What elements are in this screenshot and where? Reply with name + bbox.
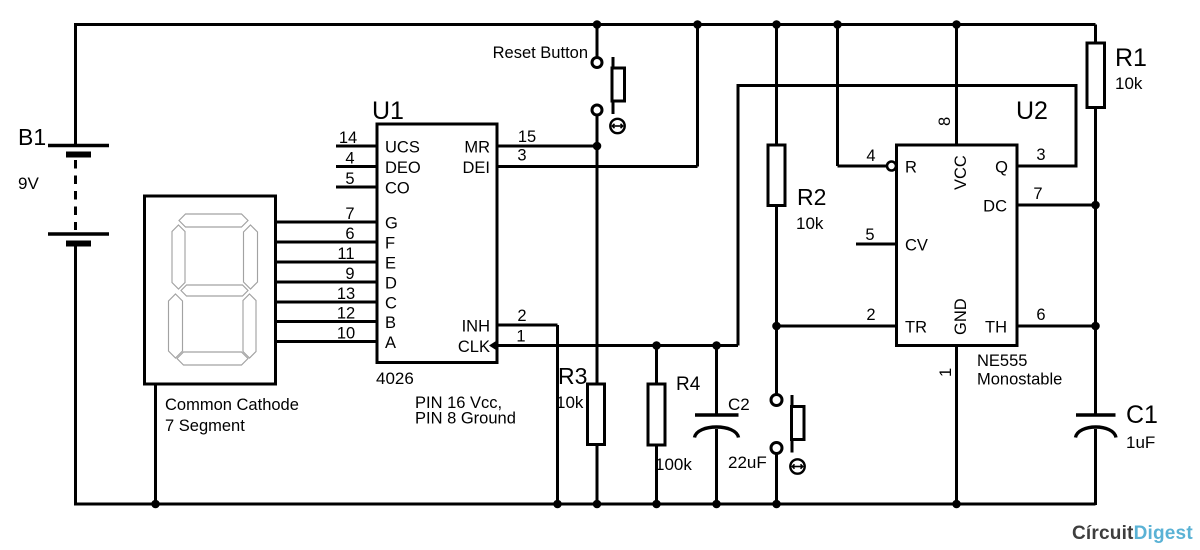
pin stub 5 CO bbox=[336, 186, 377, 189]
svg-text:1uF: 1uF bbox=[1126, 433, 1155, 452]
junction TH node bbox=[1091, 322, 1100, 331]
wire DEI pin 3 to supply bbox=[497, 25, 698, 167]
junction C2 ground bbox=[712, 500, 721, 509]
svg-text:D: D bbox=[385, 275, 397, 293]
junction DEI supply bbox=[693, 20, 702, 29]
svg-text:100k: 100k bbox=[655, 455, 692, 474]
svg-text:4: 4 bbox=[345, 150, 354, 168]
junction VCC supply bbox=[952, 20, 961, 29]
svg-text:DEI: DEI bbox=[462, 159, 490, 177]
svg-text:5: 5 bbox=[345, 170, 354, 188]
svg-text:15: 15 bbox=[518, 128, 536, 146]
reset button S1 bbox=[493, 25, 625, 147]
capacitor C2 22uF bbox=[695, 346, 767, 505]
svg-text:R2: R2 bbox=[797, 184, 826, 210]
svg-text:C: C bbox=[385, 295, 397, 313]
wire MR pin 15 bbox=[497, 128, 597, 146]
svg-text:R1: R1 bbox=[1115, 44, 1147, 72]
R pin inversion bubble bbox=[887, 162, 896, 171]
svg-text:CV: CV bbox=[905, 237, 928, 255]
svg-text:7: 7 bbox=[345, 205, 354, 223]
svg-text:Common Cathode: Common Cathode bbox=[165, 396, 299, 414]
svg-text:INH: INH bbox=[462, 318, 490, 336]
svg-text:4: 4 bbox=[866, 147, 875, 165]
pin stub 5 CV bbox=[856, 226, 897, 244]
svg-text:CLK: CLK bbox=[458, 338, 490, 356]
resistor R2 10k bbox=[768, 25, 826, 327]
wire segment C bbox=[276, 301, 378, 304]
reset button actuation symbol bbox=[610, 119, 624, 133]
svg-text:U1: U1 bbox=[372, 97, 404, 125]
wire TR pin 2 bbox=[777, 306, 897, 326]
wire INH pin 2 to ground bbox=[497, 307, 558, 504]
wire GND pin 1 to ground bbox=[937, 346, 957, 505]
svg-text:PIN 8 Ground: PIN 8 Ground bbox=[415, 410, 516, 428]
svg-text:6: 6 bbox=[345, 225, 354, 243]
U1 note text bbox=[415, 394, 516, 428]
svg-text:10k: 10k bbox=[1115, 74, 1143, 93]
svg-text:Reset Button: Reset Button bbox=[493, 44, 588, 62]
svg-text:F: F bbox=[385, 235, 395, 253]
svg-text:3: 3 bbox=[1036, 146, 1045, 164]
U1 pin labels left bbox=[385, 139, 421, 353]
resistor R4 100k bbox=[648, 346, 701, 505]
wire 7-segment common cathode to ground bbox=[154, 384, 157, 504]
svg-text:G: G bbox=[385, 215, 398, 233]
svg-text:7 Segment: 7 Segment bbox=[165, 417, 245, 435]
junction INH ground bbox=[553, 500, 562, 509]
svg-text:2: 2 bbox=[517, 307, 526, 325]
wire segment G bbox=[276, 221, 378, 224]
svg-text:7: 7 bbox=[1033, 185, 1042, 203]
svg-text:CírcuitDigest: CírcuitDigest bbox=[1072, 523, 1193, 544]
wire reset R pin 4 to supply bbox=[838, 25, 887, 167]
svg-text:9: 9 bbox=[345, 265, 354, 283]
trigger button actuation symbol bbox=[790, 459, 804, 473]
wire segment B bbox=[276, 320, 378, 323]
svg-text:11: 11 bbox=[337, 245, 354, 263]
svg-text:10k: 10k bbox=[796, 214, 824, 233]
resistor R1 10k bbox=[1087, 25, 1147, 416]
junction 7seg ground bbox=[151, 500, 160, 509]
junction C2 CLK bbox=[712, 341, 721, 350]
wire bottom ground rail bbox=[74, 503, 1096, 506]
svg-text:UCS: UCS bbox=[385, 139, 420, 157]
wire DC pin 7 bbox=[1017, 185, 1096, 205]
svg-text:TH: TH bbox=[985, 319, 1007, 337]
svg-text:3: 3 bbox=[517, 147, 526, 165]
wire Q feedback to CLK bbox=[738, 86, 1076, 346]
svg-text:R: R bbox=[905, 159, 917, 177]
CLK arrow head bbox=[489, 340, 498, 351]
svg-text:TR: TR bbox=[905, 319, 927, 337]
svg-text:1: 1 bbox=[516, 328, 525, 346]
svg-text:12: 12 bbox=[337, 305, 355, 323]
svg-text:A: A bbox=[385, 334, 396, 352]
svg-text:VCC: VCC bbox=[952, 155, 970, 190]
svg-text:B1: B1 bbox=[18, 124, 46, 150]
junction S2 ground bbox=[772, 500, 781, 509]
junction R3 ground bbox=[593, 500, 602, 509]
junction S1 supply bbox=[593, 20, 602, 29]
CircuitDigest logo bbox=[1072, 523, 1193, 544]
battery B1 bbox=[18, 23, 109, 505]
svg-text:C1: C1 bbox=[1126, 401, 1158, 429]
junction R2 supply bbox=[772, 20, 781, 29]
U2 pin labels bbox=[905, 155, 1008, 336]
capacitor C1 1uF bbox=[1076, 401, 1158, 505]
wire segment F bbox=[276, 241, 378, 244]
svg-text:9V: 9V bbox=[18, 174, 39, 193]
svg-text:8: 8 bbox=[936, 117, 954, 126]
svg-text:B: B bbox=[385, 314, 396, 332]
svg-text:E: E bbox=[385, 255, 396, 273]
svg-text:Q: Q bbox=[995, 159, 1008, 177]
pin stub 4 DEO bbox=[336, 165, 377, 168]
resistor R3 10k bbox=[556, 146, 605, 504]
svg-text:4026: 4026 bbox=[376, 369, 414, 388]
svg-text:NE555: NE555 bbox=[977, 352, 1027, 370]
svg-text:MR: MR bbox=[464, 139, 490, 157]
svg-text:5: 5 bbox=[865, 226, 874, 244]
svg-text:2: 2 bbox=[866, 306, 875, 324]
svg-text:C2: C2 bbox=[728, 395, 750, 414]
junction GND ground bbox=[952, 500, 961, 509]
junction R2 TR bbox=[772, 322, 781, 331]
svg-text:13: 13 bbox=[337, 285, 355, 303]
junction S1 / MR / R3 bbox=[593, 142, 602, 151]
U1 pin numbers left bbox=[337, 129, 357, 343]
U1 pin labels right bbox=[458, 139, 490, 357]
svg-text:Monostable: Monostable bbox=[977, 371, 1062, 389]
wire segment E bbox=[276, 261, 378, 264]
svg-text:1: 1 bbox=[937, 368, 955, 377]
svg-text:6: 6 bbox=[1036, 306, 1045, 324]
svg-text:10: 10 bbox=[337, 325, 355, 343]
svg-text:14: 14 bbox=[339, 129, 357, 147]
7-segment digit segments bbox=[169, 214, 258, 365]
wire top supply rail bbox=[74, 23, 1096, 26]
wire CLK pin 1 bbox=[497, 328, 738, 346]
trigger button S2 bbox=[771, 326, 804, 504]
IC U1 4026 box bbox=[372, 97, 497, 388]
pin stub 14 UCS bbox=[336, 145, 377, 148]
junction R4 ground bbox=[652, 500, 661, 509]
7-segment display DS1 box bbox=[145, 196, 299, 435]
wire segment A bbox=[276, 340, 378, 343]
junction DC node bbox=[1091, 201, 1100, 210]
wire TH pin 6 bbox=[1017, 306, 1096, 326]
svg-text:U2: U2 bbox=[1016, 97, 1048, 125]
svg-text:R4: R4 bbox=[676, 374, 701, 395]
svg-text:DC: DC bbox=[983, 198, 1007, 216]
wire segment D bbox=[276, 281, 378, 284]
wire VCC pin 8 bbox=[936, 25, 957, 146]
svg-text:GND: GND bbox=[952, 298, 970, 335]
svg-text:CO: CO bbox=[385, 180, 410, 198]
svg-text:22uF: 22uF bbox=[728, 453, 767, 472]
junction R4 CLK bbox=[652, 341, 661, 350]
svg-text:R3: R3 bbox=[558, 363, 587, 389]
junction R supply bbox=[833, 20, 842, 29]
svg-text:10k: 10k bbox=[556, 393, 584, 412]
svg-text:DEO: DEO bbox=[385, 159, 421, 177]
IC U2 NE555 box bbox=[897, 97, 1063, 389]
